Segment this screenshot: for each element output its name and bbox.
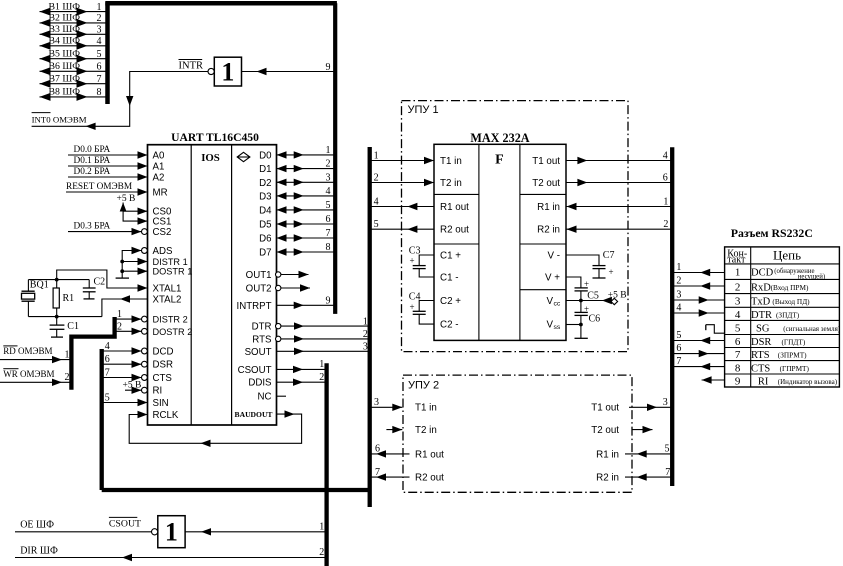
- wire D3 to data bus, line 4: [277, 186, 336, 200]
- wire BAUDOUT to RCLK feedback loop: [129, 410, 301, 447]
- svg-text:+: +: [410, 302, 415, 312]
- symbol: bidirectional diamond on D0 row: [237, 152, 250, 161]
- pin circle (inverting) right y=326.1: [276, 323, 281, 328]
- wire NC stub: [277, 395, 287, 397]
- svg-text:+: +: [410, 256, 415, 266]
- svg-text:2: 2: [326, 159, 331, 170]
- node +5 В supply (УПУ1): [566, 290, 627, 304]
- svg-text:CS2: CS2: [153, 227, 172, 238]
- wire SOUT pin 3: [277, 342, 370, 355]
- pin label MR (UART left): [153, 188, 168, 199]
- pin label R2 in (УПУ2 right): [596, 473, 619, 484]
- svg-text:3: 3: [374, 397, 379, 408]
- svg-text:5: 5: [676, 330, 681, 341]
- svg-text:R2 out: R2 out: [415, 473, 444, 484]
- table row 4: DTR: [735, 309, 800, 321]
- svg-text:8: 8: [326, 242, 331, 253]
- pin label RI (UART left): [153, 386, 163, 397]
- wire OUT1 stub: [281, 271, 309, 278]
- label UART TL16C450: [171, 131, 259, 144]
- svg-text:3: 3: [735, 295, 741, 307]
- svg-text:INTR: INTR: [179, 61, 204, 72]
- pin label D2 (UART right): [259, 178, 271, 189]
- svg-text:6: 6: [105, 354, 110, 365]
- svg-text:2: 2: [65, 372, 70, 383]
- svg-text:ADS: ADS: [153, 246, 173, 257]
- table row 1: DCD: [735, 267, 825, 281]
- wire DCD pin 4: [102, 341, 142, 355]
- wire SIN pin 5: [102, 392, 148, 406]
- wire OUT2 stub: [281, 284, 310, 291]
- svg-text:2: 2: [735, 282, 741, 294]
- svg-text:C1 -: C1 -: [440, 272, 459, 283]
- pin label R2 out (УПУ2 left): [415, 473, 444, 484]
- wire DSR to connector pin 5: [672, 330, 724, 344]
- wire R1 in pin 1 (УПУ1): [566, 196, 672, 210]
- pin label T2 out (MAX232 right): [532, 178, 560, 189]
- svg-text:2: 2: [663, 219, 668, 230]
- svg-text:7: 7: [326, 228, 331, 239]
- wire INTRPT pin 9: [277, 295, 336, 309]
- wire D0.2 БРА to A2: [68, 167, 148, 181]
- svg-text:CSOUT: CSOUT: [109, 519, 141, 530]
- svg-text:T1 out: T1 out: [591, 403, 619, 414]
- inverter gate U2 (INTR), box with 1: [208, 57, 242, 86]
- label F: [495, 153, 504, 168]
- pin label A1 (UART left): [153, 162, 165, 173]
- svg-text:C5: C5: [587, 291, 599, 302]
- pin label A2 (UART left): [153, 173, 165, 184]
- capacitor C3: [409, 246, 434, 278]
- svg-text:1: 1: [663, 196, 668, 207]
- wire TxD to connector pin 3: [672, 290, 724, 304]
- svg-text:DOSTR 2: DOSTR 2: [153, 327, 193, 337]
- ground (C5/C6 chain): [575, 337, 588, 339]
- node XTAL1 net horizontal: [28, 278, 89, 282]
- svg-text:DSR: DSR: [751, 337, 771, 348]
- svg-text:9: 9: [326, 295, 331, 306]
- pin circle (inverting) left y=351: [142, 348, 148, 354]
- svg-text:V: V: [546, 296, 553, 307]
- svg-text:DSR: DSR: [153, 360, 173, 371]
- svg-text:C2 -: C2 -: [440, 320, 459, 331]
- wire DTR pin 1: [281, 316, 370, 329]
- svg-text:несущей): несущей): [798, 273, 825, 280]
- svg-text:INT0 ОМЭВМ: INT0 ОМЭВМ: [32, 115, 87, 125]
- svg-text:4: 4: [105, 341, 110, 352]
- svg-text:В7 ШФ: В7 ШФ: [49, 73, 81, 84]
- wire CTS pin 7: [102, 367, 142, 381]
- svg-text:такт: такт: [727, 255, 746, 266]
- svg-text:4: 4: [663, 150, 668, 161]
- svg-text:D6: D6: [259, 234, 271, 245]
- svg-text:+: +: [609, 267, 614, 277]
- svg-text:BQ1: BQ1: [30, 279, 49, 290]
- svg-text:RTS: RTS: [751, 350, 770, 361]
- pin label T1 in (MAX232 left): [440, 156, 462, 167]
- pin label C2 + (MAX232 left): [440, 296, 461, 307]
- svg-text:Цепь: Цепь: [773, 248, 801, 263]
- svg-text:(ЗПДТ): (ЗПДТ): [776, 310, 800, 319]
- wire D5 to data bus, line 6: [277, 214, 336, 228]
- pin label XTAL2 (UART left): [153, 295, 182, 306]
- pin label OUT2 (UART right): [246, 284, 272, 295]
- svg-text:6: 6: [735, 336, 741, 348]
- svg-text:В3 ШФ: В3 ШФ: [49, 24, 81, 35]
- svg-text:2: 2: [117, 321, 122, 332]
- pin label DISTR 2 (UART left): [153, 315, 188, 325]
- svg-text:1: 1: [97, 2, 102, 13]
- svg-text:4: 4: [676, 303, 681, 314]
- pin label DDIS (UART right): [248, 378, 272, 389]
- svg-text:7: 7: [97, 74, 102, 85]
- ground (C7): [593, 277, 606, 279]
- pin circle (inverting) left y=390.2: [142, 387, 148, 393]
- wire DSR pin 6: [102, 354, 142, 368]
- svg-text:5: 5: [97, 49, 102, 60]
- wire RTS pin 2: [281, 329, 370, 342]
- pin label BAUDOUT (UART right): [235, 410, 273, 419]
- svg-text:F: F: [495, 153, 504, 168]
- node SG signal ground step: [706, 325, 725, 334]
- svg-text:BAUDOUT: BAUDOUT: [235, 410, 273, 419]
- svg-text:1: 1: [65, 349, 70, 360]
- wire D7 to data bus, line 8: [277, 242, 336, 256]
- svg-text:A0: A0: [153, 151, 165, 162]
- capacitor C7: [566, 250, 614, 278]
- table row 2: RxD: [735, 282, 809, 294]
- wire RD ОМЭВМ (overlined RD) pin 1: [0, 346, 71, 363]
- pin label DCD (UART left): [153, 347, 174, 358]
- svg-text:OUT2: OUT2: [246, 284, 272, 295]
- wire DDIS pin 2: [277, 372, 327, 386]
- wire Vss to ground: [566, 325, 581, 339]
- svg-text:+5 В: +5 В: [117, 194, 136, 204]
- pin label ADS (UART left): [153, 246, 173, 257]
- pin label C2 - (MAX232 left): [440, 320, 459, 331]
- wire: bus to INTR gate input, pin 9: [242, 62, 336, 75]
- pin label RTS (UART right): [252, 334, 272, 345]
- svg-text:UART TL16C450: UART TL16C450: [171, 131, 259, 144]
- wire D6 to data bus, line 7: [277, 228, 336, 242]
- pin label D3 (UART right): [259, 191, 271, 202]
- wire OE ШФ to gate: [15, 520, 152, 532]
- pin label OUT1 (UART right): [246, 270, 272, 281]
- label INT0 ОМЭВМ (overlined INT0): [32, 113, 87, 125]
- svg-text:C1: C1: [67, 321, 79, 332]
- wire T2 in stub (УПУ2): [386, 426, 402, 433]
- svg-text:A2: A2: [153, 173, 165, 184]
- wire T1 out pin 3 (УПУ2): [629, 397, 672, 411]
- block УПУ 1 (dashed box): [402, 101, 629, 352]
- pin label R2 out (MAX232 left): [440, 225, 469, 236]
- wire В5 ШФ (bidirectional line 5): [40, 48, 108, 62]
- wire В2 ШФ (bidirectional line 2): [40, 13, 108, 27]
- wire D4 to data bus, line 5: [277, 200, 336, 214]
- svg-text:cc: cc: [554, 301, 561, 308]
- ground (C2): [84, 298, 95, 300]
- pin label NC (UART right): [258, 392, 272, 403]
- svg-text:MR: MR: [153, 188, 168, 199]
- wire В1 ШФ (bidirectional line 1): [40, 1, 108, 15]
- wire XTAL1 net (crystal top): [57, 270, 148, 292]
- svg-text:T2 out: T2 out: [532, 178, 560, 189]
- svg-text:D7: D7: [259, 248, 271, 259]
- table Разъем RS232C frame: [725, 247, 840, 387]
- pin label R1 in (MAX232 right): [537, 202, 560, 213]
- svg-text:9: 9: [326, 62, 331, 73]
- wire T1 out pin 4 (УПУ1): [566, 150, 672, 164]
- pin label Vcc (MAX232 right): [546, 296, 560, 308]
- wire T2 in pin 2 (УПУ1): [370, 172, 434, 186]
- pin label T1 out (MAX232 right): [532, 156, 560, 167]
- wire T1 in pin 3 (УПУ2): [370, 397, 403, 411]
- svg-text:1: 1: [735, 267, 741, 279]
- svg-text:4: 4: [374, 196, 379, 207]
- ground (ADS network): [116, 277, 129, 279]
- wire RESET ОМЭВМ to MR: [66, 182, 148, 196]
- svg-text:D4: D4: [259, 205, 272, 216]
- wire XTAL2 net (crystal bottom): [28, 295, 147, 318]
- svg-text:SG: SG: [756, 323, 770, 334]
- crystal BQ1: [22, 279, 49, 316]
- svg-text:2: 2: [319, 372, 324, 383]
- label Разъем RS232C: [731, 226, 813, 240]
- svg-text:INTRPT: INTRPT: [237, 301, 272, 312]
- svg-text:D0.3 БРА: D0.3 БРА: [74, 222, 111, 232]
- svg-text:R1 out: R1 out: [415, 449, 444, 460]
- svg-text:DCD: DCD: [153, 347, 174, 358]
- pin label D6 (UART right): [259, 234, 271, 245]
- pin label DISTR 1 (UART left): [153, 257, 188, 267]
- wire В3 ШФ (bidirectional line 3): [40, 24, 108, 38]
- svg-text:7: 7: [735, 349, 741, 361]
- svg-text:DTR: DTR: [751, 310, 772, 321]
- svg-text:D0.1 БРА: D0.1 БРА: [74, 156, 111, 166]
- svg-text:В6 ШФ: В6 ШФ: [49, 61, 81, 72]
- svg-text:2: 2: [374, 172, 379, 183]
- svg-text:5: 5: [326, 200, 331, 211]
- svg-text:RxD: RxD: [751, 283, 771, 294]
- svg-text:(ГПДТ): (ГПДТ): [782, 338, 806, 347]
- pin circle (inverting) left y=331.3: [142, 328, 148, 334]
- bus: thick vertical UPU input bus: [368, 147, 372, 507]
- svg-text:1: 1: [374, 150, 379, 161]
- pin circle (inverting) left y=250.5: [142, 248, 148, 254]
- bus: thick horizontal line top: [105, 1, 337, 6]
- bus: thick zigzag RD/WR to DISTR2/DOSTR2: [71, 317, 114, 390]
- svg-text:В4 ШФ: В4 ШФ: [49, 36, 81, 47]
- wire RI stub to connector: [702, 376, 725, 383]
- svg-text:1: 1: [165, 518, 178, 547]
- svg-text:C2: C2: [94, 277, 106, 288]
- svg-text:CSOUT: CSOUT: [238, 365, 272, 376]
- wire DISTR2 pin 1: [115, 309, 142, 323]
- pin label XTAL1 (UART left): [153, 284, 182, 295]
- svg-text:1: 1: [676, 262, 681, 273]
- svg-text:A1: A1: [153, 162, 165, 173]
- table row 6: DSR: [735, 336, 806, 348]
- op-amp U3: MAX 232A chip body: [434, 144, 566, 340]
- svg-text:DCD: DCD: [751, 268, 774, 279]
- wire D0.0 БРА to A0: [68, 145, 148, 159]
- svg-text:2: 2: [676, 276, 681, 287]
- pin label T2 out (УПУ2 right): [591, 425, 619, 436]
- pin label D0 (UART right): [259, 150, 272, 161]
- svg-text:1: 1: [326, 145, 331, 156]
- wire D1 to data bus, line 2: [277, 159, 336, 173]
- svg-text:R2 in: R2 in: [537, 225, 560, 236]
- svg-text:В1 ШФ: В1 ШФ: [49, 1, 81, 12]
- svg-text:DTR: DTR: [252, 322, 272, 333]
- label CSOUT (overlined): [109, 517, 141, 529]
- wire В6 ШФ (bidirectional line 6): [40, 61, 108, 75]
- bus: thick horizontal bottom connector: [102, 488, 370, 492]
- capacitor C2: [83, 277, 105, 299]
- svg-text:D2: D2: [259, 178, 271, 189]
- pin circle (inverting) right y=288: [276, 285, 281, 290]
- svg-text:SOUT: SOUT: [245, 347, 272, 358]
- svg-text:DOSTR 1: DOSTR 1: [153, 267, 193, 277]
- svg-text:RI: RI: [758, 377, 769, 388]
- svg-text:D5: D5: [259, 220, 271, 231]
- svg-text:5: 5: [105, 392, 110, 403]
- wire R1 out pin 4 (УПУ1): [370, 196, 434, 210]
- pin circle (inverting) left y=231.6: [142, 229, 148, 235]
- pin label C1 - (MAX232 left): [440, 272, 459, 283]
- wire DTR to connector pin 4: [672, 303, 724, 317]
- wire RxD to connector pin 2: [672, 276, 724, 290]
- pin label V - (MAX232 right): [547, 250, 560, 261]
- svg-text:RI: RI: [153, 386, 163, 397]
- pin circle (inverting) right y=338.9: [276, 336, 281, 341]
- svg-text:1: 1: [221, 58, 234, 87]
- pin label Vss (MAX232 right): [546, 320, 560, 332]
- pin label R1 out (MAX232 left): [440, 202, 469, 213]
- pin label R1 out (УПУ2 left): [415, 449, 444, 460]
- pin label T1 in (УПУ2 left): [415, 403, 437, 414]
- label MAX 232A: [470, 131, 529, 145]
- wire T2 out pin 6 (УПУ1): [566, 172, 672, 186]
- svg-text:7: 7: [375, 467, 380, 478]
- svg-text:2: 2: [363, 329, 368, 340]
- svg-text:D0.2 БРА: D0.2 БРА: [74, 167, 111, 177]
- svg-text:8: 8: [97, 87, 102, 98]
- svg-text:MAX 232A: MAX 232A: [470, 131, 529, 145]
- svg-text:T2 out: T2 out: [591, 425, 619, 436]
- pin label D1 (UART right): [259, 164, 271, 175]
- svg-text:1: 1: [319, 521, 324, 532]
- svg-text:2: 2: [97, 13, 102, 24]
- svg-text:6: 6: [97, 62, 102, 73]
- svg-text:CS1: CS1: [153, 217, 172, 228]
- wire DCD to connector pin 1: [672, 262, 724, 276]
- pin label CSOUT (UART right): [238, 365, 272, 376]
- wire В4 ШФ (bidirectional line 4): [40, 36, 108, 50]
- svg-text:5: 5: [374, 219, 379, 230]
- wire В8 ШФ (bidirectional line 8): [40, 87, 108, 101]
- svg-text:6: 6: [375, 444, 380, 455]
- label INTR (overlined): [179, 60, 204, 72]
- svg-text:В5 ШФ: В5 ШФ: [49, 48, 81, 59]
- svg-text:T1 in: T1 in: [415, 403, 437, 414]
- svg-text:C6: C6: [589, 314, 601, 325]
- svg-text:C1 +: C1 +: [440, 250, 461, 261]
- svg-text:OE ШФ: OE ШФ: [20, 520, 54, 531]
- wire T1 in pin 1 (УПУ1): [370, 150, 434, 164]
- svg-text:CTS: CTS: [751, 363, 770, 374]
- pin label INTRPT (UART right): [237, 301, 272, 312]
- svg-text:УПУ 1: УПУ 1: [408, 104, 439, 116]
- label IOS: [201, 152, 220, 164]
- wire: INTR gate output down to INT0: [32, 72, 208, 131]
- wire CSOUT pin 1: [277, 359, 327, 373]
- bus: thick vertical modem-signal bus (left): [100, 349, 104, 490]
- pin label D4 (UART right): [259, 205, 272, 216]
- wire D0 to data bus, line 1: [277, 145, 336, 159]
- svg-text:Разъем RS232C: Разъем RS232C: [731, 226, 813, 240]
- capacitor C4: [409, 291, 434, 324]
- pin label A0 (UART left): [153, 151, 165, 162]
- svg-text:R2 in: R2 in: [596, 473, 619, 484]
- svg-text:6: 6: [663, 172, 668, 183]
- svg-text:7: 7: [105, 367, 110, 378]
- pin circle (inverting) left y=319.1: [142, 316, 148, 322]
- wire R2 in pin 7 (УПУ2): [625, 467, 672, 481]
- svg-text:6: 6: [676, 343, 681, 354]
- svg-text:1: 1: [117, 309, 122, 320]
- svg-text:4: 4: [326, 186, 331, 197]
- svg-text:3: 3: [97, 25, 102, 36]
- capacitor C1: [50, 317, 79, 338]
- table row 5: SG: [735, 322, 841, 334]
- pin label CS1 (UART left): [153, 217, 172, 228]
- svg-text:1: 1: [363, 316, 368, 327]
- wire D2 to data bus, line 3: [277, 172, 336, 186]
- svg-text:+5 В: +5 В: [608, 290, 627, 300]
- svg-text:RCLK: RCLK: [153, 410, 179, 421]
- svg-text:NC: NC: [258, 392, 272, 403]
- svg-text:ss: ss: [554, 324, 561, 331]
- table row 7: RTS: [735, 349, 807, 361]
- node +5 В supply to CS0/CS1: [117, 194, 148, 225]
- label УПУ 1: [408, 104, 439, 116]
- pin label DOSTR 2 (UART left): [153, 327, 193, 337]
- svg-text:(Вход ПРМ): (Вход ПРМ): [771, 283, 809, 292]
- pin label SOUT (UART right): [245, 347, 272, 358]
- svg-text:7: 7: [665, 467, 670, 478]
- svg-text:8: 8: [735, 362, 741, 374]
- svg-text:CTS: CTS: [153, 373, 173, 384]
- wire DIR ШФ pin 2: [15, 546, 327, 562]
- table header Кон-такт / Цепь: [727, 248, 801, 266]
- svg-text:(Выход ПД): (Выход ПД): [772, 297, 810, 306]
- svg-text:3: 3: [363, 342, 368, 353]
- svg-text:1: 1: [319, 359, 324, 370]
- bus: thick vertical data bus (D0-D7 to UART): [333, 3, 337, 314]
- svg-text:3: 3: [663, 397, 668, 408]
- pin label CS0 (UART left): [153, 207, 172, 218]
- pin label DTR (UART right): [252, 322, 272, 333]
- svg-text:4: 4: [97, 36, 102, 47]
- svg-text:T2 in: T2 in: [415, 425, 437, 436]
- svg-text:3: 3: [676, 290, 681, 301]
- pin label CS2 (UART left): [153, 227, 172, 238]
- svg-text:4: 4: [735, 309, 741, 321]
- pin label DOSTR 1 (UART left): [153, 267, 193, 277]
- inverter gate U4 (CSOUT), box with 1: [152, 516, 186, 548]
- svg-text:RESET ОМЭВМ: RESET ОМЭВМ: [66, 182, 132, 192]
